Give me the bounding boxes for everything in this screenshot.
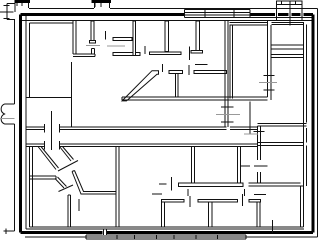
door tick x105 xyxy=(105,31,107,40)
outer contour top xyxy=(29,8,318,10)
stall bar 2 xyxy=(198,200,238,203)
tick x272.5 bottom xyxy=(272,220,274,233)
shelf line y194.5 xyxy=(254,194,266,196)
wall pair A x267.5 with door xyxy=(259,21,277,100)
inner wall line top xyxy=(22,20,312,22)
wall bar y183 x178-243 xyxy=(179,183,244,186)
wall bar x149-181 xyxy=(150,52,182,55)
section wall pair x224.5 xyxy=(225,21,228,128)
door stub y184 xyxy=(159,183,167,185)
door tick x79 xyxy=(78,199,80,211)
stall wall pair x208.5 xyxy=(209,202,213,227)
door line gray y46 right xyxy=(107,45,125,47)
diagonal wall D1 xyxy=(38,147,59,170)
outer contour right xyxy=(317,9,319,238)
corridor lower wall pair y126.5 right xyxy=(230,127,258,130)
stall wall pair x257 xyxy=(257,202,260,227)
wall pair x165 xyxy=(165,21,169,52)
door leaf x145 xyxy=(144,46,146,54)
door leaf x188 below xyxy=(187,189,189,196)
wall bar x113-140 xyxy=(113,53,140,56)
left notch window top-left xyxy=(0,4,16,20)
outer contour left xyxy=(14,20,16,232)
wall bar T x169-182 xyxy=(169,71,183,74)
wall pair x237.5 xyxy=(238,147,241,183)
wall stub pair x91.5 xyxy=(92,49,95,55)
wall bar x113-132 xyxy=(113,38,132,41)
corridor lower wall pair y126.5 left xyxy=(26,124,227,133)
door leaf x250 xyxy=(249,102,251,135)
door leaf L1 xyxy=(58,161,78,172)
corridor upper wall pair y98.5 xyxy=(122,97,268,100)
room A top-left outline xyxy=(26,23,73,98)
room west wall pair x230 xyxy=(230,25,233,99)
door leaf x171.5 xyxy=(171,177,173,191)
door leaf x244.5 xyxy=(244,189,246,196)
chimney top-left xyxy=(15,2,31,13)
door panel gray y131.5 xyxy=(244,133,258,135)
door leaf x190 xyxy=(189,196,191,207)
wall pair horizontal y54 xyxy=(73,54,95,57)
inner wall line left xyxy=(25,16,27,229)
door tick y194 x152 xyxy=(152,193,162,195)
wall pair x133.5 xyxy=(133,21,136,56)
bay window top-right xyxy=(250,1,312,26)
door panel gray y114.5 xyxy=(216,114,240,116)
east room mid wall pair y142.5 xyxy=(258,143,304,146)
diagonal wall D3 bent xyxy=(72,171,117,195)
chimney top-middle xyxy=(92,2,112,9)
bottom-left room box xyxy=(30,147,304,230)
wall pair B x303.5 xyxy=(301,23,307,227)
door on x226 wall ticks xyxy=(221,107,234,122)
inner wall line bottom xyxy=(26,228,304,230)
east room top wall pair y123.5 xyxy=(258,124,307,127)
wall pair x68 bottom-left xyxy=(68,195,71,227)
diagonal wall wedge xyxy=(122,71,159,101)
stairs bottom wall pair y54.5 xyxy=(271,55,304,58)
stairs treads xyxy=(271,45,304,49)
wall pair vertical x91 xyxy=(90,21,96,43)
window strip bottom wall xyxy=(86,229,246,239)
door leaves y166 xyxy=(240,165,268,167)
wall pair x196 with cap xyxy=(191,21,203,53)
stall bar 1 xyxy=(162,200,185,203)
outer contour bottom xyxy=(25,236,318,238)
wall segment x71.5 corridor xyxy=(71,62,73,127)
shelf line y64.5 xyxy=(195,64,208,66)
mid wall pair y144 xyxy=(26,141,258,150)
door line gray y45.5 left xyxy=(86,45,100,47)
wall y183 right segment xyxy=(249,183,304,186)
wall bar x194-226 xyxy=(194,71,227,74)
left wall door bump xyxy=(0,104,15,124)
stall wall pair x161.5 xyxy=(162,202,165,227)
room top wall pair y22.5 xyxy=(230,23,269,26)
door leaf x51.5 xyxy=(51,111,53,150)
east room wall pair x257.5 upper xyxy=(254,126,265,183)
wall stem pair x175.5 xyxy=(176,74,179,98)
door leaf L2 xyxy=(59,185,74,192)
door leaf x189.5 xyxy=(188,47,191,76)
stall bar 3 xyxy=(249,200,261,203)
wall pair x191.5 xyxy=(192,147,195,183)
vestibule wall pair y176 xyxy=(30,176,57,179)
bottom-left outer stub xyxy=(4,229,15,235)
room A east wall pair x73 xyxy=(73,21,76,54)
door tick x162.5 xyxy=(162,64,164,72)
window strip top wall xyxy=(185,10,251,18)
diagonal wall D2 xyxy=(60,147,74,162)
door tick x242.5 xyxy=(242,194,244,206)
stairs room walls top-right xyxy=(272,23,305,25)
diagonal wall D4 xyxy=(55,177,67,188)
